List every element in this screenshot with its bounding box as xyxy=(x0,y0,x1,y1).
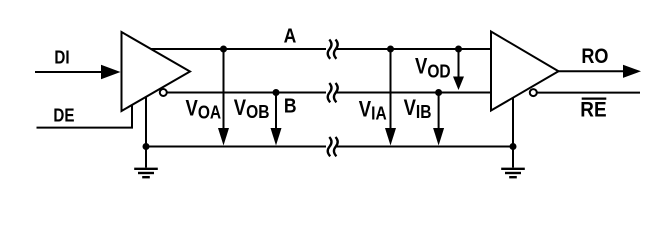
label VIB xyxy=(404,97,432,123)
junction dot A/VOA xyxy=(220,46,227,53)
wire VOD measurement line xyxy=(458,49,460,78)
arrowhead DI input xyxy=(101,65,121,79)
junction dot B/VOB xyxy=(273,89,280,96)
wire break on line A xyxy=(328,40,338,59)
label RE (active low) xyxy=(580,98,606,121)
receiver U2 triangle xyxy=(491,32,559,111)
label DE xyxy=(53,105,74,126)
node A line (right segment) xyxy=(336,48,491,50)
node B line (left segment) xyxy=(167,92,326,94)
wire VIB measurement line xyxy=(438,93,440,130)
ground symbol left xyxy=(134,169,158,177)
label VOD xyxy=(415,55,451,82)
svg-text:VOB: VOB xyxy=(234,96,270,122)
svg-text:VOA: VOA xyxy=(186,97,222,123)
junction dot driver ground xyxy=(143,143,150,150)
arrowhead VIA xyxy=(385,128,396,146)
overline for RE xyxy=(582,97,607,99)
svg-text:RO: RO xyxy=(581,45,608,69)
wire ground rail (left segment) xyxy=(146,146,326,148)
svg-text:DE: DE xyxy=(53,105,74,126)
svg-text:A: A xyxy=(284,25,297,47)
wire receiver ground pin xyxy=(512,98,514,168)
label A xyxy=(284,25,297,47)
junction dot A/VOD xyxy=(455,46,462,53)
label B xyxy=(284,94,297,116)
svg-text:DI: DI xyxy=(54,47,69,68)
junction dot A/VIA xyxy=(387,46,394,53)
junction dot B/VIB xyxy=(435,89,442,96)
svg-text:B: B xyxy=(284,94,297,116)
wire RE output line xyxy=(537,92,640,94)
arrowhead VOD xyxy=(453,77,464,91)
wire ground rail (right segment) xyxy=(336,146,513,148)
receiver U2 enable bubble xyxy=(530,89,537,96)
arrowhead VIB xyxy=(433,128,444,146)
driver U1 triangle xyxy=(122,32,191,111)
wire VOA measurement line xyxy=(223,49,225,129)
svg-text:RE: RE xyxy=(580,98,606,121)
wire break on ground rail xyxy=(328,137,338,156)
junction dot receiver ground xyxy=(510,143,517,150)
ground symbol right xyxy=(501,169,525,177)
arrowhead RO output xyxy=(623,65,641,78)
wire DE line xyxy=(37,105,133,128)
svg-text:VIA: VIA xyxy=(359,98,387,124)
wire VIA measurement line xyxy=(390,49,392,129)
label DI xyxy=(54,47,69,68)
node A line (left segment) xyxy=(151,48,326,50)
wire VOB measurement line xyxy=(275,93,277,130)
svg-text:VIB: VIB xyxy=(404,97,432,123)
wire DI input line xyxy=(35,71,104,73)
wire RO output line xyxy=(559,70,625,72)
label VIA xyxy=(359,98,387,124)
label VOB xyxy=(234,96,270,122)
wire driver ground pin xyxy=(145,97,147,168)
arrowhead VOB xyxy=(271,128,282,146)
label VOA xyxy=(186,97,222,123)
label RO xyxy=(581,45,608,69)
arrowhead VOA xyxy=(218,128,229,146)
node B line (right segment) xyxy=(336,92,491,94)
svg-text:VOD: VOD xyxy=(415,55,451,82)
wire break on line B xyxy=(328,83,338,102)
driver U1 inverting output bubble xyxy=(160,89,167,96)
